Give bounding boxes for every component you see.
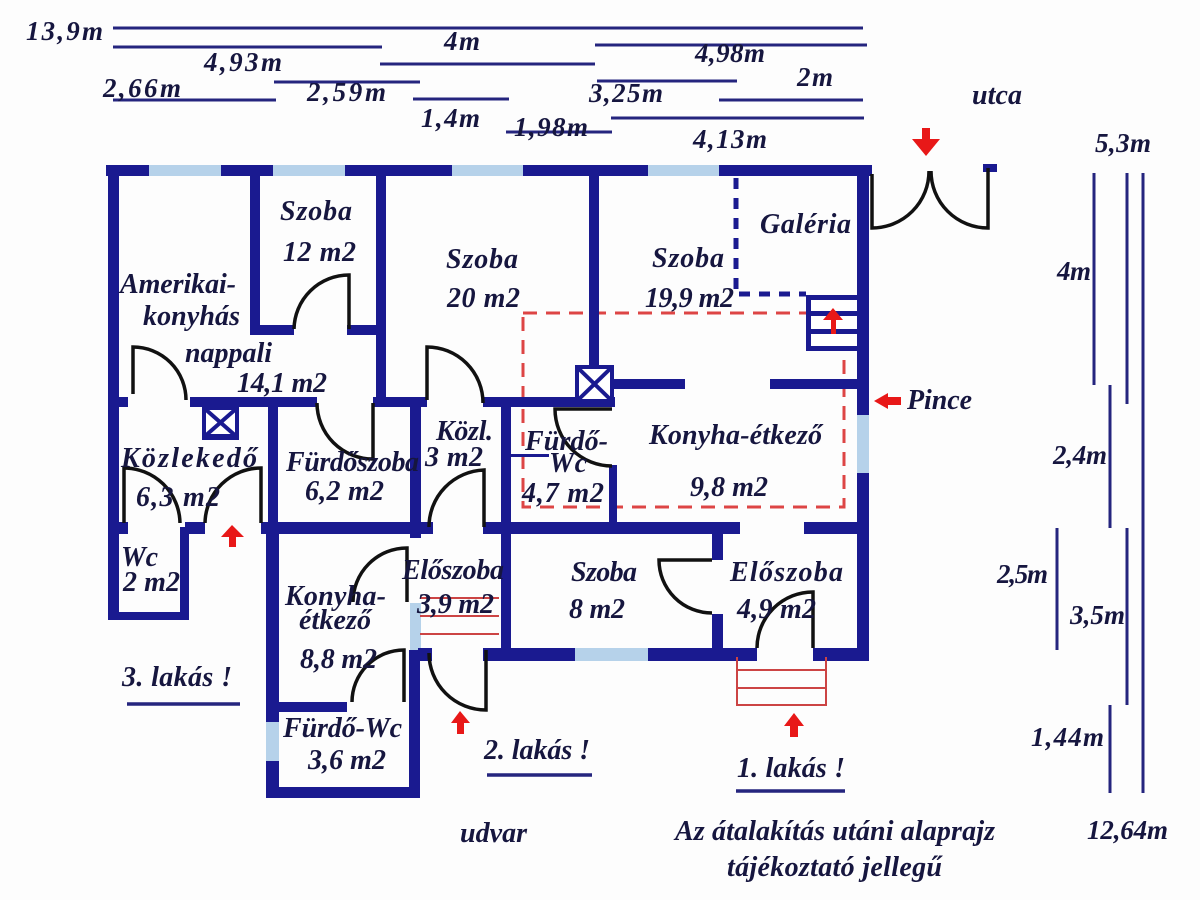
svg-text:3. lakás !: 3. lakás ! bbox=[121, 662, 232, 693]
gate wall stub right of entrance bbox=[983, 164, 997, 172]
door kozl3 bbox=[429, 470, 484, 527]
dimension line right 5,3m bbox=[1126, 173, 1129, 404]
wall konyha8.8 left bbox=[266, 522, 279, 798]
svg-text:20 m2: 20 m2 bbox=[446, 283, 520, 314]
door 2.lakas entrance bbox=[429, 650, 486, 710]
window top 3 bbox=[452, 165, 523, 176]
svg-text:9,8 m2: 9,8 m2 bbox=[690, 472, 768, 503]
svg-text:konyhás: konyhás bbox=[143, 301, 240, 332]
svg-text:Szoba: Szoba bbox=[571, 557, 637, 588]
underline 1.lakas bbox=[736, 789, 845, 793]
bottom band segment szoba8 right bbox=[648, 648, 757, 661]
svg-text:3,5m: 3,5m bbox=[1069, 600, 1125, 630]
gate right leaf and arc bbox=[931, 168, 988, 228]
svg-text:4,98m: 4,98m bbox=[694, 38, 765, 68]
svg-text:2 m2: 2 m2 bbox=[122, 567, 180, 598]
door szoba20 bbox=[427, 347, 483, 403]
svg-text:4,93m: 4,93m bbox=[203, 47, 282, 77]
wall 8.8/3.6 divider bbox=[266, 702, 347, 712]
bottom band segment right end bbox=[813, 648, 869, 661]
svg-text:3,6 m2: 3,6 m2 bbox=[307, 745, 386, 776]
door furdowc4.7 bbox=[555, 409, 612, 466]
svg-text:Előszoba: Előszoba bbox=[401, 555, 504, 586]
window right wall bbox=[857, 415, 869, 473]
svg-text:8,8 m2: 8,8 m2 bbox=[300, 644, 377, 675]
dimension line 1,98m bbox=[506, 131, 612, 134]
svg-text:Konyha-étkező: Konyha-étkező bbox=[648, 420, 824, 451]
red arrow utca down bbox=[912, 128, 940, 156]
wall wc right bbox=[180, 527, 189, 620]
svg-text:Szoba: Szoba bbox=[652, 243, 724, 274]
svg-text:12 m2: 12 m2 bbox=[283, 237, 356, 268]
svg-text:4,9 m2: 4,9 m2 bbox=[736, 594, 816, 625]
wall szoba12 bottom right part bbox=[347, 325, 386, 335]
dimension line right 2,4m bbox=[1109, 385, 1112, 528]
svg-text:Galéria: Galéria bbox=[760, 209, 851, 240]
door corridor 3.lakas bbox=[205, 468, 261, 523]
wall K szoba8/eloszoba4.9 upper stub bbox=[712, 522, 723, 560]
svg-text:Pince: Pince bbox=[906, 385, 972, 416]
underline 3.lakas bbox=[127, 702, 240, 706]
red arrow pince left bbox=[874, 393, 901, 409]
door furdowc3.6 bbox=[352, 650, 404, 702]
top outer wall segment 5 bbox=[719, 165, 872, 176]
svg-text:2m: 2m bbox=[796, 62, 833, 92]
red dashed rectangle konyha-etkezo 9.8 bbox=[523, 313, 844, 507]
galeria stairs box bbox=[806, 295, 858, 351]
window top 4 bbox=[648, 165, 719, 176]
window box symbol 1 kozlekedo bbox=[202, 408, 239, 440]
top outer wall segment 1 bbox=[106, 165, 149, 176]
wall szoba12/szoba20 divider bbox=[376, 165, 386, 407]
window konyha8.8 right bbox=[410, 603, 421, 650]
red arrow 1.lakas up bbox=[784, 713, 804, 737]
svg-text:4,13m: 4,13m bbox=[692, 124, 767, 154]
svg-text:Fürdő-Wc: Fürdő-Wc bbox=[282, 713, 403, 744]
wall E under szoba20 door bbox=[373, 397, 427, 407]
svg-text:5,3m: 5,3m bbox=[1095, 128, 1151, 158]
gate left leaf and arc bbox=[872, 171, 929, 228]
svg-text:1. lakás !: 1. lakás ! bbox=[737, 753, 845, 784]
svg-text:2,5m: 2,5m bbox=[996, 559, 1048, 589]
wall E nappali to kozlekedo bbox=[190, 397, 317, 407]
wall furdo-wc3.6 bottom bbox=[266, 787, 419, 798]
svg-text:14,1 m2: 14,1 m2 bbox=[237, 368, 327, 399]
svg-text:Szoba: Szoba bbox=[280, 196, 352, 227]
wall band H main bbox=[261, 522, 433, 534]
red stairs 1.lakas entrance bbox=[737, 657, 826, 706]
dimension line 1,4m bbox=[413, 98, 509, 101]
window konyha3.6 left bbox=[266, 722, 279, 761]
wall E top of kozl and furdowc bbox=[483, 397, 615, 407]
svg-text:8 m2: 8 m2 bbox=[569, 594, 625, 625]
window top 2 bbox=[273, 165, 345, 176]
dimension line right 2,5m bbox=[1056, 528, 1059, 650]
svg-text:Előszoba: Előszoba bbox=[729, 557, 843, 588]
svg-text:3,9 m2: 3,9 m2 bbox=[416, 589, 494, 620]
door nappali bbox=[133, 347, 186, 400]
dimension line right 3,5m bbox=[1126, 528, 1129, 705]
svg-text:4m: 4m bbox=[443, 26, 480, 56]
dimension line right 12,64m bbox=[1142, 173, 1145, 793]
svg-text:3,25m: 3,25m bbox=[588, 78, 663, 108]
right outer wall upper bbox=[857, 165, 869, 415]
svg-text:nappali: nappali bbox=[185, 338, 272, 369]
wall szoba12 left bbox=[250, 165, 260, 335]
svg-text:6,2 m2: 6,2 m2 bbox=[305, 476, 384, 507]
door konyha8.8 bbox=[353, 548, 407, 602]
dimension line 3,25m bbox=[597, 80, 737, 83]
door furdoszoba6.2 bbox=[317, 403, 373, 459]
dimension line 13,9m bbox=[113, 27, 863, 30]
bottom band segment left bbox=[418, 648, 432, 661]
wall F szoba19.9 bottom left bbox=[613, 379, 685, 389]
svg-text:2,4m: 2,4m bbox=[1052, 440, 1107, 470]
dimension line 4m top bbox=[380, 63, 595, 66]
svg-text:Szoba: Szoba bbox=[446, 244, 518, 275]
svg-text:12,64m: 12,64m bbox=[1087, 815, 1168, 845]
wall szoba20/szoba19.9 divider bbox=[589, 165, 599, 366]
svg-text:4m: 4m bbox=[1056, 256, 1091, 286]
wall furdowc4.7 right bbox=[609, 465, 617, 534]
svg-text:Amerikai-: Amerikai- bbox=[118, 269, 236, 300]
svg-text:utca: utca bbox=[972, 80, 1022, 111]
wall szoba12 bottom left part bbox=[250, 325, 294, 335]
dimension line 2m bbox=[719, 99, 863, 102]
bottom band segment corridor to window bbox=[483, 648, 575, 661]
dimension line 4,98m bbox=[595, 44, 867, 47]
galeria dashed horizontal bbox=[739, 292, 806, 297]
galeria dashed vertical bbox=[734, 178, 739, 292]
left outer wall bbox=[108, 165, 119, 620]
wall F szoba19.9 bottom right bbox=[770, 379, 858, 389]
top outer wall segment 2 bbox=[221, 165, 273, 176]
wall band H right of opening bbox=[804, 522, 869, 534]
thin shelf line furdowc4.7 bbox=[511, 454, 549, 457]
wall E horizontal left stub bbox=[108, 397, 128, 407]
right outer wall lower bbox=[857, 473, 869, 661]
red arrow 3.lakas up bbox=[221, 525, 244, 547]
svg-text:1,4m: 1,4m bbox=[421, 103, 480, 133]
svg-text:19,9 m2: 19,9 m2 bbox=[645, 283, 734, 314]
wall wc bottom bbox=[108, 612, 189, 620]
top outer wall segment 3 bbox=[345, 165, 452, 176]
red arrow 2.lakas up bbox=[451, 711, 470, 734]
svg-text:6,3 m2: 6,3 m2 bbox=[136, 482, 220, 513]
wall band H kozl to konyha bbox=[483, 522, 740, 534]
door wc bbox=[124, 468, 180, 523]
door szoba12 bbox=[294, 275, 349, 329]
wall kozl3 right / szoba8 left bbox=[501, 397, 511, 661]
window top 1 bbox=[149, 165, 221, 176]
dimension line 4,93m bbox=[113, 46, 382, 49]
top outer wall segment 4 bbox=[523, 165, 648, 176]
wall G kozlekedo/furdoszoba divider bbox=[268, 397, 278, 534]
svg-text:Az átalakítás utáni alaprajz: Az átalakítás utáni alaprajz bbox=[673, 816, 995, 847]
svg-text:étkező: étkező bbox=[299, 605, 373, 636]
svg-text:2,59m: 2,59m bbox=[306, 77, 386, 107]
wall J kozl3 left bbox=[410, 397, 421, 538]
wall band H left stub bbox=[108, 522, 128, 534]
red stairs eloszoba3.9 bbox=[420, 598, 499, 634]
svg-text:tájékoztató jellegű: tájékoztató jellegű bbox=[727, 852, 943, 883]
underline 2.lakas bbox=[487, 773, 592, 777]
svg-text:2,66m: 2,66m bbox=[102, 73, 181, 103]
dimension line right 4m bbox=[1093, 173, 1096, 385]
svg-text:udvar: udvar bbox=[460, 818, 528, 849]
svg-text:2. lakás !: 2. lakás ! bbox=[483, 735, 590, 766]
door 1.lakas entrance bbox=[757, 592, 813, 648]
window szoba8 bottom bbox=[575, 648, 648, 661]
svg-text:Wc: Wc bbox=[549, 448, 588, 479]
svg-text:4,7 m2: 4,7 m2 bbox=[521, 478, 604, 509]
red arrow galeria stairs up bbox=[823, 308, 843, 334]
wall furdo-wc3.6 right bbox=[409, 650, 420, 798]
dimension line right 1,44m bbox=[1109, 705, 1112, 793]
svg-text:Fürdőszoba: Fürdőszoba bbox=[285, 447, 419, 478]
door szoba8 to eloszoba4.9 bbox=[659, 560, 712, 613]
dimension line 4,13m bbox=[611, 117, 864, 120]
dimension line 2,66m bbox=[113, 99, 276, 102]
wall K szoba8/eloszoba4.9 lower bbox=[712, 614, 723, 661]
wall band H between wc and corridor doors bbox=[185, 522, 205, 534]
svg-text:1,44m: 1,44m bbox=[1031, 722, 1104, 752]
dimension line 2,59m bbox=[274, 81, 420, 84]
window box symbol 2 furdowc4.7 bbox=[577, 367, 612, 401]
svg-text:3 m2: 3 m2 bbox=[424, 442, 483, 473]
